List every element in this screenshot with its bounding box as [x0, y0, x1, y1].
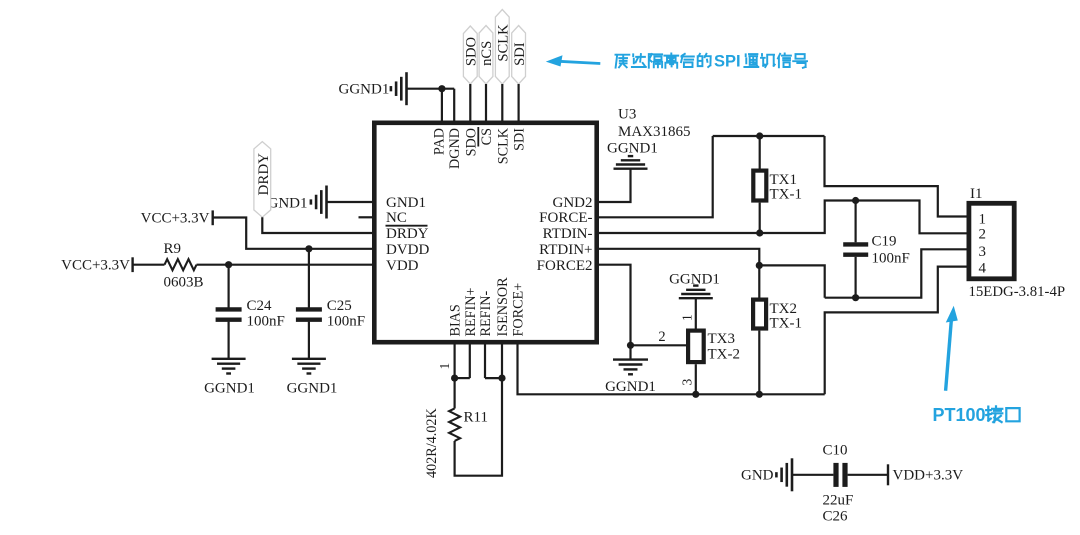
- svg-text:100nF: 100nF: [327, 313, 365, 329]
- svg-text:22uF: 22uF: [823, 493, 854, 509]
- svg-text:GND1: GND1: [386, 195, 426, 211]
- svg-text:GGND1: GGND1: [204, 380, 255, 396]
- svg-text:SPI: SPI: [714, 52, 741, 70]
- svg-text:C25: C25: [327, 298, 352, 314]
- svg-text:FORCE+: FORCE+: [511, 283, 527, 337]
- svg-text:MAX31865: MAX31865: [618, 124, 691, 140]
- svg-text:1: 1: [437, 363, 452, 370]
- svg-text:VCC+3.3V: VCC+3.3V: [61, 258, 130, 274]
- svg-text:0603B: 0603B: [164, 275, 204, 291]
- svg-text:BIAS: BIAS: [448, 304, 464, 336]
- svg-text:VDD: VDD: [386, 258, 419, 274]
- svg-text:DRDY: DRDY: [386, 226, 429, 242]
- svg-text:SCLK: SCLK: [495, 127, 511, 164]
- svg-text:GND1: GND1: [268, 196, 308, 212]
- svg-text:2: 2: [979, 227, 987, 243]
- svg-text:ISENSOR: ISENSOR: [495, 277, 511, 337]
- svg-text:U3: U3: [618, 107, 636, 123]
- svg-text:15EDG-3.81-4P: 15EDG-3.81-4P: [969, 284, 1066, 300]
- svg-text:3: 3: [680, 379, 695, 386]
- svg-text:FORCE-: FORCE-: [539, 210, 592, 226]
- svg-text:TX3: TX3: [708, 331, 736, 347]
- svg-text:GND: GND: [741, 468, 774, 484]
- svg-text:1: 1: [680, 314, 695, 321]
- svg-text:2: 2: [658, 329, 665, 345]
- svg-text:NC: NC: [386, 210, 407, 226]
- svg-text:4: 4: [979, 261, 987, 277]
- svg-text:SCLK: SCLK: [496, 24, 512, 62]
- svg-text:REFIN-: REFIN-: [478, 291, 494, 337]
- svg-text:VDD+3.3V: VDD+3.3V: [893, 468, 964, 484]
- svg-text:R9: R9: [164, 241, 182, 257]
- svg-text:DRDY: DRDY: [256, 153, 272, 196]
- svg-text:SDO: SDO: [463, 128, 479, 156]
- svg-text:R11: R11: [464, 410, 488, 426]
- svg-text:GGND1: GGND1: [605, 379, 656, 395]
- svg-text:100nF: 100nF: [872, 251, 910, 267]
- svg-text:TX-2: TX-2: [708, 347, 741, 363]
- svg-text:RTDIN-: RTDIN-: [543, 226, 593, 242]
- svg-text:REFIN+: REFIN+: [463, 288, 479, 337]
- svg-text:PAD: PAD: [432, 128, 448, 155]
- svg-text:GGND1: GGND1: [339, 82, 390, 98]
- svg-text:DGND: DGND: [447, 128, 463, 169]
- svg-text:SDI: SDI: [512, 128, 528, 151]
- svg-text:SDO: SDO: [464, 37, 480, 66]
- svg-text:100nF: 100nF: [247, 313, 285, 329]
- svg-text:PT100: PT100: [933, 405, 986, 425]
- svg-text:402R/4.02K: 402R/4.02K: [424, 407, 440, 478]
- svg-text:GGND1: GGND1: [287, 380, 338, 396]
- svg-text:I1: I1: [970, 186, 983, 202]
- svg-text:CS: CS: [479, 128, 495, 145]
- svg-text:1: 1: [979, 211, 987, 227]
- svg-text:SDI: SDI: [512, 42, 528, 66]
- svg-text:C19: C19: [872, 234, 897, 250]
- svg-text:RTDIN+: RTDIN+: [539, 242, 592, 258]
- svg-text:GGND1: GGND1: [669, 271, 720, 287]
- svg-text:C24: C24: [247, 298, 273, 314]
- svg-text:GND2: GND2: [553, 195, 593, 211]
- svg-text:TX-1: TX-1: [770, 316, 803, 332]
- svg-text:C10: C10: [823, 442, 848, 458]
- svg-text:3: 3: [979, 244, 987, 260]
- svg-text:FORCE2: FORCE2: [537, 258, 593, 274]
- svg-text:nCS: nCS: [479, 41, 495, 66]
- svg-text:TX-1: TX-1: [770, 186, 803, 202]
- svg-text:GGND1: GGND1: [607, 141, 658, 157]
- svg-text:VCC+3.3V: VCC+3.3V: [141, 211, 210, 227]
- svg-text:DVDD: DVDD: [386, 242, 429, 258]
- svg-text:C26: C26: [823, 509, 849, 525]
